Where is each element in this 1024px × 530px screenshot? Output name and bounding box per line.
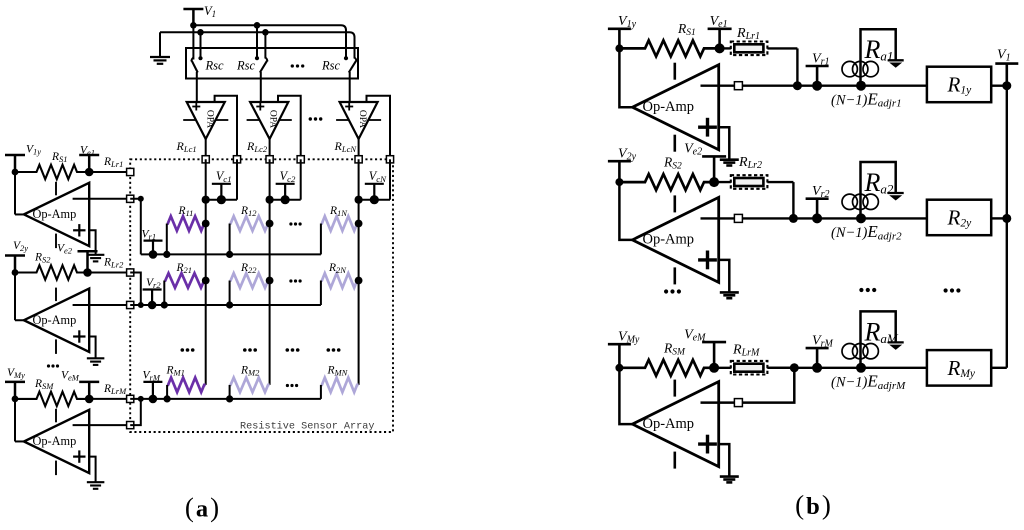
ellipsis row 2 between R22 and R2N bbox=[289, 279, 292, 282]
contact switch Rsc2 fixed post tip bbox=[255, 56, 259, 60]
junction RM2 leg on row line bbox=[226, 395, 233, 402]
pad column N sense on array top border bbox=[386, 156, 393, 163]
ellipsis row 1 between R12 and R1N bbox=[289, 222, 292, 225]
op-amp row 1 (panel a) triangle bbox=[24, 183, 89, 246]
junction V2y node (panel b) bbox=[615, 178, 623, 186]
adjustment source coils row 1 (panel b) bbox=[842, 61, 857, 76]
wire row 1 sense jog from pad down to row line bbox=[130, 199, 141, 255]
wire switch RscN output to op-amp OPAN bbox=[349, 72, 351, 103]
terminal VrM bbox=[143, 381, 162, 383]
junction V2y node (panel a) bbox=[12, 269, 19, 276]
junction R11 on column line bbox=[202, 220, 210, 228]
wire switch Rsc1 left post bbox=[192, 25, 194, 59]
junction VMy node (panel a) bbox=[12, 396, 19, 403]
wire row 1 line bbox=[141, 253, 321, 255]
ellipsis between Rsc2 and RscN bbox=[291, 64, 294, 67]
ground op-amp row M (panel b) bbox=[720, 475, 739, 478]
op-amp row 1 (panel b) bottom power stub bbox=[673, 135, 676, 152]
ellipsis panel b rows gap right bbox=[944, 288, 948, 292]
op-amp row 2 (panel a) bottom power stub bbox=[55, 339, 57, 354]
junction Ve2 node (panel a) bbox=[83, 268, 92, 277]
junction VeM node (panel a) bbox=[85, 395, 94, 404]
junction V1y node (panel a) bbox=[12, 169, 19, 176]
svg-text:Rsc: Rsc bbox=[236, 59, 256, 73]
resistor RM2 (sensor element) bbox=[230, 378, 270, 393]
resistor RS2 (panel b row 2) bbox=[619, 174, 714, 190]
op-amp OPAN plus input mark bbox=[345, 106, 353, 108]
wire RMy box output to right rail bbox=[991, 367, 1007, 369]
wire switch Rsc2 left post bbox=[256, 25, 258, 57]
op-amp row M (panel b) bottom power stub bbox=[673, 452, 676, 469]
wire Ve1 node to array left pad (RLr1 feeder) bbox=[89, 171, 130, 173]
wire column 2 line through array bbox=[269, 159, 271, 385]
resistor R22 (sensor element) bbox=[230, 273, 270, 288]
junction VrM node (panel b) bbox=[812, 363, 822, 373]
op-amp row 2 (panel b) plus input mark bbox=[698, 258, 717, 261]
op-amp row 1 (panel b) top power stub bbox=[673, 63, 676, 80]
op-amp row 2 minus input mark and wire to array pad bbox=[73, 304, 131, 306]
op-amp row M (panel a) bottom power stub bbox=[55, 461, 57, 476]
junction Vr2 node bbox=[148, 301, 157, 310]
ground op-amp row 1 plus input (panel a) bbox=[87, 254, 105, 256]
wire VcN link between column drive and sense bbox=[359, 199, 390, 201]
junction RM1 leg on row line bbox=[164, 395, 171, 402]
resistor box RMy (panel b) bbox=[927, 350, 991, 386]
ground top-left supply ground bbox=[159, 32, 161, 57]
svg-text:Rsc: Rsc bbox=[321, 59, 341, 73]
junction Vc1 node bbox=[217, 195, 226, 204]
ground op-amp row 1 (panel b) bbox=[720, 158, 739, 161]
wire OPA1 feedback loop to array sense column bbox=[215, 96, 237, 156]
wire R21 left leg bbox=[163, 281, 165, 306]
op-amp row M (panel a) top power stub bbox=[55, 409, 57, 423]
junction switch-2 left post on rail 1 bbox=[254, 22, 261, 29]
wire row 2 feeder drop from pad bbox=[130, 273, 141, 306]
wire column 1 line through array bbox=[205, 159, 207, 385]
resistor R21 (sensor element) bbox=[164, 273, 205, 288]
ellipsis array vertical gap column N bbox=[327, 348, 331, 352]
op-amp OPA2 plus input mark bbox=[256, 106, 264, 108]
terminal Ve2 (panel a row 2) bbox=[78, 250, 98, 253]
op-amp row M (panel b) triangle bbox=[632, 382, 718, 467]
terminal VrM (panel b) bbox=[806, 347, 829, 350]
op-amp row 2 plus input mark bbox=[73, 335, 85, 337]
junction Ve1 node (panel b) bbox=[715, 43, 725, 53]
resistor RM1 (sensor element) bbox=[167, 378, 206, 393]
ground Ra1 (panel b) bbox=[888, 59, 904, 61]
wire Ve1 node through RLr1 bbox=[720, 47, 731, 49]
op-amp OPA2 right supply tick bbox=[279, 119, 292, 121]
wire switch Rsc2 right post bbox=[264, 32, 266, 58]
switch RscN lever bbox=[349, 61, 356, 73]
op-amp OPA2 left supply tick bbox=[247, 119, 260, 121]
junction R12 leg on row line bbox=[226, 251, 233, 258]
junction Vc2 node bbox=[281, 195, 290, 204]
wire Vc1 link between column drive and sense bbox=[206, 199, 237, 201]
pad row M minus sense on array left border bbox=[127, 422, 134, 429]
op-amp row M minus input mark and wire to array pad bbox=[73, 424, 131, 426]
resistor RaM loop (panel b) bbox=[861, 311, 896, 367]
resistor box R1y (panel b) bbox=[927, 67, 991, 103]
wire VeM node through RLrM bbox=[714, 367, 731, 369]
junction Vr1 node bbox=[149, 250, 158, 259]
junction Vr2 node (panel b) bbox=[812, 213, 822, 223]
ground op-amp row 2 plus input (panel a) bbox=[87, 357, 105, 359]
junction right rail row 2 bbox=[1002, 214, 1011, 223]
junction row M minus sense on main line bbox=[790, 363, 799, 372]
junction R21 on column line bbox=[202, 277, 210, 285]
wire column 1 sense stub bbox=[236, 159, 238, 199]
terminal Vc1 bbox=[212, 183, 231, 185]
wire op-amp row 1 (panel b) plus input to ground bbox=[719, 127, 730, 160]
svg-text:Op-Amp: Op-Amp bbox=[33, 207, 77, 221]
junction Ve1 node (panel a) bbox=[85, 168, 94, 177]
pad row M feeder on array left border bbox=[127, 395, 134, 402]
op-amp row 1 (panel b) plus input mark bbox=[698, 125, 717, 128]
pad row 2 feeder on array left border bbox=[127, 269, 134, 276]
op-amp OPA1 plus input mark bbox=[192, 106, 200, 108]
wire top rail 2 (ground branch to switch-3 right post) bbox=[160, 32, 355, 58]
wire op-amp row 2 (panel b) output to V2y node bbox=[619, 182, 632, 240]
op-amp OPA1 right supply tick bbox=[215, 119, 228, 121]
terminal Vr2 (panel b) bbox=[806, 197, 829, 200]
junction Vc2 link on column line bbox=[266, 196, 274, 204]
wire column 2 sense stub bbox=[300, 159, 302, 199]
resistor Ra2 loop (panel b) bbox=[861, 162, 896, 218]
wire row M main line from feeder corner bbox=[767, 367, 927, 369]
junction R22 leg on row line bbox=[226, 301, 233, 308]
terminal Ve1 (panel b row 1) bbox=[708, 27, 732, 30]
junction R12 on column line bbox=[266, 220, 274, 228]
resistor RLrM (panel b, dashed-boxed) bbox=[731, 361, 768, 375]
wire VeM node to array left pad (RLrM feeder) bbox=[89, 398, 130, 400]
terminal Ve2 (panel b row 2) bbox=[702, 155, 726, 158]
resistor RSM (panel a row M) bbox=[15, 392, 89, 406]
resistor R12 (sensor element) bbox=[230, 216, 270, 231]
terminal Vr2 bbox=[143, 288, 162, 290]
ellipsis panel b rows gap left bbox=[664, 289, 668, 293]
contact switch RscN fixed post tip bbox=[344, 56, 348, 60]
switch RscN pole hook bbox=[355, 58, 357, 62]
junction adjustment source node row 2 bbox=[856, 213, 866, 223]
terminal Ve1 (panel a row 1) bbox=[79, 154, 99, 157]
terminal VeM (panel b row M) bbox=[702, 341, 726, 344]
svg-text:Resistive Sensor Array: Resistive Sensor Array bbox=[240, 421, 375, 433]
wire op-amp row 1 output to V1y node bbox=[14, 172, 16, 214]
switch Rsc1 pole hook bbox=[191, 58, 193, 62]
pad column 2 drive on array top border bbox=[266, 156, 273, 163]
wire right rail (panel b) bbox=[1006, 86, 1008, 368]
svg-text:Op-Amp: Op-Amp bbox=[643, 99, 695, 115]
wire op-amp row 2 (panel b) plus input to ground bbox=[719, 260, 730, 293]
svg-text:OPA: OPA bbox=[204, 110, 214, 128]
wire Vc2 link between column drive and sense bbox=[270, 199, 301, 201]
junction switch-1 right post on rail 2 bbox=[197, 29, 204, 36]
svg-text:OPA: OPA bbox=[357, 110, 367, 128]
junction row 2 feeder on row line bbox=[138, 302, 144, 308]
svg-text:Op-Amp: Op-Amp bbox=[33, 434, 77, 448]
wire op-amp row M (panel b) output to VMy node bbox=[619, 368, 632, 424]
junction V1 node on rail 1 bbox=[190, 22, 197, 29]
dashed box resistive sensor array bbox=[130, 159, 393, 432]
terminal V2y (panel b row 2) bbox=[608, 160, 631, 163]
resistor box R2y (panel b) bbox=[927, 200, 991, 236]
pad column 2 sense on array top border bbox=[297, 156, 304, 163]
resistor R1N (sensor element) bbox=[321, 216, 359, 231]
junction V1y node (panel b) bbox=[615, 44, 623, 52]
terminal V1 (panel a top supply) bbox=[183, 8, 203, 11]
pad row 2 minus sense on array left border bbox=[127, 301, 134, 308]
wire OPAN feedback loop to array sense column bbox=[367, 96, 391, 156]
terminal Vr1 (panel b) bbox=[806, 65, 829, 68]
wire switch Rsc1 output to op-amp OPA1 bbox=[196, 72, 198, 103]
terminal VMy (panel a row M) bbox=[5, 381, 25, 384]
pad row 2 minus sense (panel b) bbox=[734, 214, 742, 222]
resistor RS1 (panel a row 1) bbox=[15, 165, 89, 179]
svg-text:Op-Amp: Op-Amp bbox=[33, 313, 77, 327]
resistor R11 (sensor element) bbox=[167, 216, 206, 231]
resistor R2N (sensor element) bbox=[321, 273, 359, 288]
ellipsis array vertical gap column 1 bbox=[181, 348, 185, 352]
svg-text:Op-Amp: Op-Amp bbox=[643, 416, 695, 432]
junction VcN link on column line bbox=[355, 196, 363, 204]
terminal V1y (panel a row 1) bbox=[5, 154, 25, 157]
op-amp row 2 (panel b) bottom power stub bbox=[673, 267, 676, 284]
ellipsis between row-2 and row-M op-amps (panel a) bbox=[47, 364, 50, 367]
wire Ve2 node to array left pad (RLr2 feeder) bbox=[88, 272, 131, 274]
wire RMN left leg bbox=[320, 385, 322, 399]
ellipsis array vertical gap column 2-N bbox=[286, 348, 290, 352]
resistor RLr1 (panel b, dashed-boxed) bbox=[731, 42, 768, 56]
op-amp OPAN left supply tick bbox=[336, 119, 349, 121]
terminal VMy (panel b row M) bbox=[608, 343, 631, 346]
wire op-amp row 2 plus input to ground bbox=[89, 337, 95, 359]
terminal V1 (panel b right) bbox=[995, 62, 1018, 65]
op-amp row M plus input mark bbox=[73, 456, 85, 458]
ground op-amp row 2 (panel b) bbox=[720, 291, 739, 294]
junction feeder on main line row 2 bbox=[789, 214, 798, 223]
resistor RLr2 (panel b, dashed-boxed) bbox=[731, 175, 768, 189]
pad row 1 feeder on array left border bbox=[127, 168, 134, 175]
wire OPA1 output column drive bbox=[205, 139, 207, 156]
pad row 1 minus sense (panel b) bbox=[734, 82, 742, 90]
ellipsis panel b rows gap middle bbox=[859, 288, 863, 292]
op-amp row M (panel a) triangle bbox=[24, 410, 89, 473]
wire op-amp row 2 output to V2y node bbox=[14, 273, 16, 321]
pad row M minus sense (panel b) bbox=[734, 399, 742, 407]
ground RaM (panel b) bbox=[888, 341, 904, 343]
terminal VcN bbox=[365, 183, 384, 185]
pad column 1 sense on array top border bbox=[233, 156, 240, 163]
switch Rsc2 lever bbox=[260, 61, 267, 73]
ellipsis between OPA2 and OPAN bbox=[309, 117, 312, 120]
wire OPAN output column drive bbox=[358, 139, 360, 156]
junction R21 leg on row line bbox=[161, 301, 168, 308]
wire op-amp row 1 (panel b) output to V1y node bbox=[619, 48, 632, 107]
terminal V1y (panel b row 1) bbox=[608, 27, 631, 30]
junction Ve2 node (panel b) bbox=[709, 177, 719, 187]
op-amp row M (panel b) plus input mark bbox=[698, 442, 717, 445]
junction VrM node bbox=[149, 395, 158, 404]
wire column N line through array bbox=[358, 159, 360, 385]
wire feeder corner down to row 2 main line bbox=[792, 182, 794, 218]
adjustment source coils row M (panel b) bbox=[842, 344, 857, 359]
wire switch Rsc1 right post bbox=[200, 32, 202, 57]
junction Vr1 node (panel b) bbox=[812, 81, 822, 91]
adjustment source coils row 2 (panel b) bbox=[842, 194, 857, 209]
op-amp OPAN triangle bbox=[340, 102, 378, 139]
op-amp row M (panel b) top power stub bbox=[673, 380, 676, 397]
pad column N drive on array top border bbox=[355, 156, 362, 163]
junction switch-2 right post on rail 2 bbox=[262, 29, 269, 36]
wire top rail 1 (V1 node to switch-3 left post) bbox=[193, 25, 346, 59]
junction adjustment source node row M bbox=[856, 363, 866, 373]
resistor RS1 (panel b row 1) bbox=[619, 40, 719, 56]
wire row M line bbox=[130, 398, 321, 400]
op-amp OPA1 triangle bbox=[187, 102, 225, 139]
junction right rail row 1 bbox=[1002, 81, 1011, 90]
terminal Vc2 bbox=[276, 183, 295, 185]
junction R2N on column line bbox=[355, 277, 363, 285]
op-amp OPAN right supply tick bbox=[368, 119, 381, 121]
op-amp row 2 (panel a) triangle bbox=[24, 289, 89, 352]
op-amp row 1 (panel a) top power stub bbox=[55, 182, 57, 196]
junction VcN node bbox=[370, 195, 379, 204]
ellipsis array vertical gap column 2 bbox=[243, 348, 247, 352]
wire RM1 left leg bbox=[166, 385, 168, 399]
wire OPA2 output column drive bbox=[269, 139, 271, 156]
ellipsis row M between RM2 and RMN bbox=[286, 384, 289, 387]
wire op-amp row 1 plus input to ground bbox=[89, 230, 95, 255]
svg-text:OPA: OPA bbox=[268, 110, 278, 128]
wire R2y box output to right rail bbox=[991, 217, 1007, 219]
op-amp row 1 plus input mark bbox=[73, 229, 85, 231]
wire R22 left leg bbox=[229, 281, 231, 306]
wire OPA2 feedback loop to array sense column bbox=[278, 96, 301, 156]
wire R2N left leg bbox=[320, 281, 322, 306]
op-amp OPA1 left supply tick bbox=[183, 119, 196, 121]
svg-text:(a): (a) bbox=[185, 493, 221, 523]
junction R11 leg on row line bbox=[163, 251, 170, 258]
wire R1N left leg bbox=[320, 224, 322, 255]
junction VMy node (panel b) bbox=[615, 364, 623, 372]
junction adjustment source node row 1 bbox=[856, 81, 866, 91]
switch Rsc1 lever bbox=[192, 61, 198, 73]
junction row 1 jog bbox=[138, 196, 144, 202]
wire row M minus sense rise bbox=[701, 368, 795, 403]
op-amp row 2 (panel b) top power stub bbox=[673, 195, 676, 212]
resistor RMN (sensor element) bbox=[321, 378, 359, 393]
op-amp row 1 (panel a) bottom power stub bbox=[55, 234, 57, 249]
wire op-amp row M plus input to ground bbox=[89, 457, 95, 483]
junction R1N on column line bbox=[355, 220, 363, 228]
resistor RS2 (panel a row 2) bbox=[15, 265, 88, 279]
junction row M sense on row line bbox=[138, 396, 144, 402]
junction VeM node (panel b) bbox=[709, 363, 719, 373]
junction Vc1 link on column line bbox=[202, 196, 210, 204]
wire switch Rsc2 output to op-amp OPA2 bbox=[260, 72, 262, 103]
ground op-amp row M plus input (panel a) bbox=[87, 481, 105, 483]
wire feeder corner down to row 1 main line bbox=[796, 48, 798, 85]
junction R22 on column line bbox=[266, 277, 274, 285]
terminal Vr1 bbox=[144, 240, 163, 242]
resistor RSM (panel b row M) bbox=[619, 360, 714, 376]
ground Ra2 (panel b) bbox=[888, 192, 904, 194]
op-amp row 1 (panel b) triangle bbox=[632, 65, 718, 150]
svg-text:Op-Amp: Op-Amp bbox=[643, 232, 695, 248]
wire RM2 left leg bbox=[229, 385, 231, 399]
resistor Ra1 loop (panel b) bbox=[861, 29, 896, 85]
terminal VeM (panel a row M) bbox=[79, 381, 99, 384]
op-amp row 2 (panel b) triangle bbox=[632, 197, 718, 282]
svg-text:Rsc: Rsc bbox=[205, 59, 225, 73]
wire row 2 line (minus sense of row 2) bbox=[130, 304, 321, 306]
op-amp OPA2 triangle bbox=[250, 102, 288, 139]
wire R1y box output to right rail bbox=[991, 84, 1007, 86]
terminal V2y (panel a row 2) bbox=[5, 254, 25, 257]
wire R11 left leg bbox=[166, 224, 168, 255]
svg-text:(b): (b) bbox=[795, 490, 833, 520]
wire op-amp row 2 (panel b) minus input main line bbox=[701, 217, 927, 219]
op-amp row 1 minus input mark and wire to array pad bbox=[73, 198, 131, 200]
junction feeder on main line row 1 bbox=[793, 81, 802, 90]
wire R12 left leg bbox=[229, 224, 231, 255]
wire op-amp row M (panel b) plus input to ground bbox=[719, 444, 730, 477]
wire row M minus sense rise from pad bbox=[130, 399, 141, 425]
op-amp row 2 (panel a) top power stub bbox=[55, 288, 57, 302]
switch Rsc2 pole hook bbox=[265, 58, 267, 62]
wire op-amp row 1 (panel b) minus input main line bbox=[701, 84, 927, 86]
switch bank box (Rsc group) bbox=[186, 48, 358, 79]
wire op-amp row M output to VMy node bbox=[14, 399, 16, 442]
wire column N sense stub bbox=[389, 159, 391, 199]
pad row 1 minus sense on array left border bbox=[127, 195, 134, 202]
contact switch Rsc1 fixed post tip bbox=[198, 56, 202, 60]
wire Ve2 node through RLr2 bbox=[714, 181, 731, 183]
pad column 1 drive on array top border bbox=[202, 156, 209, 163]
